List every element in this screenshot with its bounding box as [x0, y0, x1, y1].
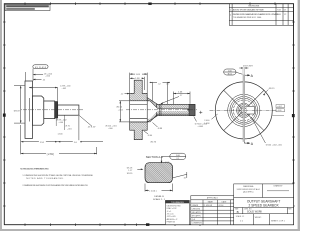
svg-text:4X R.015: 4X R.015	[35, 67, 47, 69]
svg-text:NOTED AND TOLERANCED.: NOTED AND TOLERANCED.	[26, 177, 64, 180]
svg-text:-.0005: -.0005	[198, 126, 205, 128]
svg-text:ANGLES ±.5°: ANGLES ±.5°	[167, 218, 178, 221]
svg-text:DRAWN: DRAWN	[192, 204, 199, 207]
svg-text:DRAWN BY: DRAWN BY	[273, 184, 283, 187]
svg-text:6/1: 6/1	[284, 10, 287, 12]
svg-text:Ø.375 KEY: Ø.375 KEY	[243, 66, 254, 68]
svg-text:DETAIL B: DETAIL B	[154, 195, 164, 198]
svg-text:2.000: 2.000	[204, 120, 210, 122]
svg-text:+.002: +.002	[277, 106, 282, 108]
svg-text:Ø3.19: Ø3.19	[14, 110, 21, 112]
svg-text:1. DIMENSIONS SHOWN IN 7P AND: 1. DIMENSIONS SHOWN IN 7P AND GEOM CRITI…	[22, 174, 93, 177]
svg-text:.XXX ±.005: .XXX ±.005	[167, 216, 176, 218]
svg-text:( 1.04 ): ( 1.04 )	[150, 191, 157, 193]
svg-text:NAME: NAME	[208, 200, 214, 203]
svg-text:R.06: R.06	[165, 162, 169, 164]
svg-text:REVISED BORE DIA AND ADDED CHA: REVISED BORE DIA AND ADDED CHAMFER NOTE.…	[233, 13, 280, 16]
svg-text:1.500: 1.500	[58, 133, 64, 135]
svg-text:CHECKED: CHECKED	[192, 208, 201, 210]
svg-text:WEIGHT:: WEIGHT:	[255, 217, 262, 219]
svg-text:2. DIMENSIONS SHOWN IN CUSTO: 2. DIMENSIONS SHOWN IN CUSTOM LEADED PRO…	[22, 184, 88, 187]
svg-text:APPROVALS: APPROVALS	[207, 197, 219, 200]
svg-text:15°: 15°	[184, 178, 187, 180]
svg-text:SR.95: SR.95	[127, 173, 133, 175]
svg-text:NOTES: UNLESS OTHERWISE NOTED:: NOTES: UNLESS OTHERWISE NOTED:	[20, 169, 49, 171]
svg-text:Ø.98 +.002: Ø.98 +.002	[57, 119, 68, 121]
svg-text:(A-04 SPEC): (A-04 SPEC)	[243, 191, 254, 194]
svg-text:B: B	[237, 210, 239, 214]
svg-text:Ø2.50: Ø2.50	[117, 107, 123, 109]
svg-text:[ 2.69 ]: [ 2.69 ]	[47, 153, 55, 156]
svg-text:Ø.500 +.002 -.000: Ø.500 +.002 -.000	[266, 144, 283, 146]
svg-text:SECTION A-A: SECTION A-A	[146, 155, 163, 159]
svg-text:DATE: DATE	[222, 200, 227, 203]
svg-text:TOLERANCES: TOLERANCES	[171, 201, 185, 204]
svg-text:R. MILLER: R. MILLER	[204, 205, 213, 207]
svg-text:MFG APPR.: MFG APPR.	[192, 215, 202, 218]
svg-text:ADDED SPLINE DATA AND KEYWAY: ADDED SPLINE DATA AND KEYWAY	[233, 9, 265, 12]
svg-text:FINISH 63: FINISH 63	[167, 222, 175, 224]
svg-text:SHEET 1 OF 1: SHEET 1 OF 1	[271, 220, 286, 222]
svg-text:UNIV DESIGN GROUP A-04: UNIV DESIGN GROUP A-04	[237, 188, 260, 191]
svg-text:2 SPEED GEARBOX: 2 SPEED GEARBOX	[249, 203, 280, 207]
svg-text:REVISIONS: REVISIONS	[248, 6, 260, 8]
svg-text:FRAC ±1/32: FRAC ±1/32	[167, 207, 177, 210]
svg-text:R.M.: R.M.	[277, 14, 281, 16]
svg-text:SOLID WORK: SOLID WORK	[247, 211, 263, 214]
svg-text:Ø3.19: Ø3.19	[269, 88, 276, 90]
svg-text:TOLERANCES PER ECO 1044.: TOLERANCES PER ECO 1044.	[233, 16, 262, 19]
svg-text:ENG APPR.: ENG APPR.	[192, 211, 202, 214]
svg-text:1.998: 1.998	[204, 123, 210, 125]
svg-text:Q.A.: Q.A.	[192, 218, 196, 221]
svg-text:.XX ±.01: .XX ±.01	[167, 214, 174, 216]
svg-text:WAUKESHA: WAUKESHA	[243, 185, 254, 188]
svg-text:COMMENTS:: COMMENTS:	[192, 223, 203, 225]
svg-text:.03 X 45°: .03 X 45°	[88, 127, 96, 129]
svg-text:6/1/04: 6/1/04	[219, 205, 224, 207]
svg-text:7/2: 7/2	[284, 14, 287, 16]
svg-text:R.M.: R.M.	[277, 10, 281, 12]
svg-text:.X ±.1: .X ±.1	[167, 211, 172, 213]
svg-text:Ø2.96: Ø2.96	[151, 142, 157, 144]
svg-text:UNLESS NOTED: UNLESS NOTED	[167, 205, 182, 207]
svg-text:Ø.500 +.001: Ø.500 +.001	[106, 126, 118, 128]
svg-text:+.002: +.002	[118, 109, 124, 111]
svg-text:SCALE 2 : 1: SCALE 2 : 1	[153, 198, 166, 201]
svg-text:-.000: -.000	[277, 110, 281, 112]
